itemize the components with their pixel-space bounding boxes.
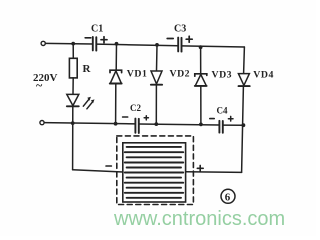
svg-text:C1: C1 [91, 23, 103, 34]
svg-text:VD3: VD3 [212, 70, 233, 81]
svg-text:C4: C4 [217, 106, 228, 116]
svg-text:VD4: VD4 [253, 70, 274, 81]
svg-text:6: 6 [225, 192, 231, 204]
svg-text:VD1: VD1 [127, 69, 148, 80]
svg-text:~: ~ [36, 78, 43, 92]
svg-text:C3: C3 [174, 24, 186, 35]
svg-text:R: R [83, 63, 92, 75]
svg-text:C2: C2 [130, 103, 141, 113]
svg-text:VD2: VD2 [170, 69, 191, 80]
